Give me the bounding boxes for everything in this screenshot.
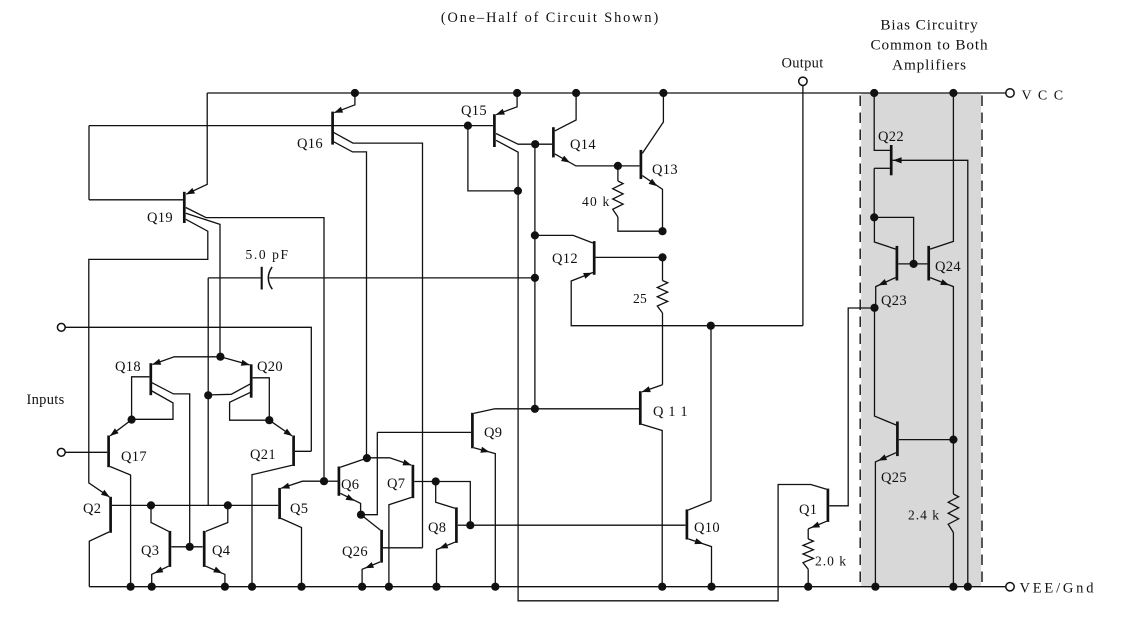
resistor R 2.4k [908, 440, 959, 587]
transistor Q19 [89, 93, 207, 226]
node Q3 collector tie [147, 501, 155, 509]
svg-text:Q6: Q6 [341, 477, 359, 493]
transistor Q5 [280, 481, 324, 585]
node Q12 collector tie [531, 231, 539, 239]
junction on VEE rail [297, 583, 305, 591]
svg-text:Q13: Q13 [652, 162, 678, 178]
node Q15c2 [514, 187, 522, 195]
transistor Q8 [428, 484, 469, 585]
node 40k bottom [658, 227, 666, 235]
junction on VEE rail [707, 583, 715, 591]
transistor Q22 [874, 93, 968, 585]
wire base tap down [468, 126, 517, 191]
wire Q16 collector 1 to Q26 base [334, 133, 423, 548]
svg-text:Q1: Q1 [799, 502, 817, 518]
svg-text:Q3: Q3 [141, 543, 159, 559]
transistor Q24 [929, 93, 962, 438]
output terminal [799, 77, 807, 85]
transistor Q3 [141, 505, 203, 584]
junction on VCC rail [949, 89, 957, 97]
node Q12 base [658, 253, 666, 261]
svg-text:Q9: Q9 [484, 425, 502, 441]
svg-text:Q10: Q10 [694, 520, 720, 536]
transistor Q14 [553, 93, 618, 166]
junction on VCC rail [351, 89, 359, 97]
transistor Q10 [687, 328, 720, 585]
junction on VEE rail [658, 583, 666, 591]
svg-text:VEE/Gnd: VEE/Gnd [1020, 581, 1097, 597]
dashed boundary right [981, 96, 983, 584]
node Q18-Q20 emitters [216, 353, 224, 361]
shaded bias region [861, 93, 981, 587]
dashed boundary left [859, 96, 861, 584]
VEE rail [89, 586, 1005, 588]
node Q18 base tie [128, 416, 136, 424]
bias caption line 2 [870, 37, 988, 54]
svg-text:Q26: Q26 [342, 544, 368, 560]
svg-text:Q25: Q25 [881, 470, 907, 486]
wire Q14 to Q13 base [618, 165, 640, 167]
svg-text:Bias Circuitry: Bias Circuitry [880, 17, 978, 34]
transistor Q9 [363, 409, 640, 585]
wire Q8 base tie [438, 482, 471, 524]
node Q25 base [949, 436, 957, 444]
transistor Q6 [324, 459, 366, 513]
junction on VEE rail [127, 583, 135, 591]
svg-text:(One–Half of Circuit Shown): (One–Half of Circuit Shown) [441, 10, 660, 26]
transistor Q1 [799, 308, 872, 529]
svg-text:Q 1 1: Q 1 1 [653, 404, 688, 420]
node Q3Q4 base [186, 543, 194, 551]
svg-text:Q4: Q4 [212, 543, 231, 559]
transistor Q15 [461, 93, 517, 147]
resistor R 40k [582, 166, 663, 231]
svg-text:Q5: Q5 [290, 501, 308, 517]
VCC rail [207, 92, 1006, 94]
svg-text:Q20: Q20 [257, 359, 283, 375]
transistor Q12 [535, 235, 803, 325]
node cap right [531, 274, 539, 282]
junction on VEE rail [949, 583, 957, 591]
transistor Q20 [210, 357, 283, 420]
label Inputs [27, 392, 65, 408]
capacitor C1 5.0 pF [208, 247, 534, 290]
node Q23 emitter [870, 304, 878, 312]
resistor R 25 [633, 257, 668, 384]
node Q20 base tie [265, 416, 273, 424]
svg-text:V C C: V C C [1022, 89, 1065, 104]
label Output [781, 56, 823, 72]
VCC terminal [1006, 89, 1014, 97]
svg-text:Q17: Q17 [121, 449, 147, 465]
svg-text:Amplifiers: Amplifiers [892, 57, 967, 74]
node mirror base [910, 260, 918, 268]
svg-text:Output: Output [781, 56, 823, 72]
transistor Q11 [640, 385, 688, 585]
input terminal 2 [57, 448, 65, 456]
node Q8 base [466, 521, 474, 529]
junction on VEE rail [358, 583, 366, 591]
svg-text:Inputs: Inputs [27, 392, 65, 408]
svg-text:25: 25 [633, 291, 647, 306]
svg-text:Q19: Q19 [147, 210, 173, 226]
wire cap left leg down [207, 278, 209, 506]
junction on VCC rail [513, 89, 521, 97]
junction on VEE rail [248, 583, 256, 591]
node output tie [707, 322, 715, 330]
svg-text:5.0 pF: 5.0 pF [246, 247, 290, 262]
wire Q19 collector 3 to Q2 emitter [89, 219, 208, 497]
node Q7Q8 base [432, 477, 440, 485]
transistor Q2 [83, 490, 278, 587]
svg-text:Q21: Q21 [250, 447, 276, 463]
wire Q15 collector 2 down [496, 140, 518, 191]
svg-text:Q14: Q14 [570, 137, 596, 153]
svg-text:Q7: Q7 [387, 476, 405, 492]
node Q4 collector tie [224, 501, 232, 509]
transistor Q18 [115, 357, 220, 545]
junction on VEE rail [804, 583, 812, 591]
transistor Q13 [641, 93, 678, 229]
junction on VEE rail [432, 583, 440, 591]
svg-text:Q8: Q8 [428, 520, 446, 536]
node Q14 emitter [614, 162, 622, 170]
VEE terminal [1006, 583, 1014, 591]
node Q9 collector tie [531, 405, 539, 413]
wire mid column [534, 144, 536, 409]
wire Q8 base to Q10 base [470, 524, 685, 526]
wire Q19 collector 2 to Q18/Q20 node [186, 213, 220, 355]
svg-text:Common to Both: Common to Both [870, 37, 988, 54]
svg-text:Q22: Q22 [878, 129, 904, 145]
node Q15c1 [531, 140, 539, 148]
transistor Q23 [874, 217, 927, 309]
node Q20 collector tie [204, 391, 212, 399]
title text [441, 10, 660, 26]
junction on VEE rail [385, 583, 393, 591]
output wire [802, 86, 804, 326]
transistor Q21 [250, 420, 311, 585]
svg-text:Q15: Q15 [461, 103, 487, 119]
svg-text:Q24: Q24 [935, 259, 961, 275]
node Q5Q6 [320, 477, 328, 485]
wire input1 to Q21 base [65, 327, 311, 451]
transistor Q7 [367, 458, 434, 585]
label VCC [1022, 89, 1065, 104]
svg-text:40 k: 40 k [582, 194, 610, 209]
junction on VEE rail [221, 583, 229, 591]
svg-text:Q2: Q2 [83, 501, 101, 517]
svg-text:2.4 k: 2.4 k [908, 508, 940, 523]
junction on VCC rail [572, 89, 580, 97]
transistor Q4 [204, 505, 231, 584]
transistor Q25 [875, 308, 952, 585]
bias caption line 3 [892, 57, 967, 74]
junction on VEE rail [964, 583, 972, 591]
node base tap [464, 122, 472, 130]
wire base rail y125 [89, 125, 493, 127]
node Q6Q7 emitters [363, 454, 371, 462]
transistor Q26 [342, 515, 423, 585]
svg-text:2.0 k: 2.0 k [815, 554, 847, 569]
wire Q19 collector 1 to Q6 node [186, 208, 324, 480]
svg-text:Q12: Q12 [552, 251, 578, 267]
wire Q15 collector 1 to Q14 base [496, 134, 552, 145]
junction on VEE rail [871, 583, 879, 591]
svg-text:Q16: Q16 [297, 136, 323, 152]
svg-text:Q23: Q23 [881, 293, 907, 309]
resistor R 2.0k [803, 529, 847, 587]
input terminal 1 [57, 323, 65, 331]
wire left base loop [88, 126, 90, 200]
wire Q16 collector 2 to Q6 emitter node [334, 142, 367, 456]
bias caption line 1 [880, 17, 978, 34]
label VEE/Gnd [1020, 581, 1097, 597]
wire to current mirror base [874, 217, 913, 262]
node Q22 collector2 [870, 213, 878, 221]
node Q6 emitter tie [357, 511, 365, 519]
junction on VEE rail [148, 583, 156, 591]
junction on VEE rail [491, 583, 499, 591]
wire input2 to Q17 base [65, 451, 107, 453]
transistor Q17 [109, 420, 147, 585]
transistor Q16 [297, 93, 355, 152]
svg-text:Q18: Q18 [115, 359, 141, 375]
junction on VCC rail [659, 89, 667, 97]
junction on VCC rail [870, 89, 878, 97]
wire node to Q1 collector [518, 191, 827, 601]
